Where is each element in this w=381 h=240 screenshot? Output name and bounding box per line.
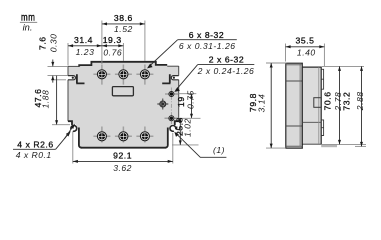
screw T3: [140, 70, 149, 79]
svg-text:0.30: 0.30: [48, 34, 58, 53]
side view body: [300, 63, 324, 146]
screw B1: [97, 132, 106, 141]
svg-text:3.62: 3.62: [113, 163, 132, 173]
dim 38.6: [102, 21, 145, 65]
svg-text:19.3: 19.3: [103, 35, 122, 45]
white slot cutouts: [66, 76, 181, 133]
svg-text:35.5: 35.5: [296, 36, 315, 46]
top-right slot: [171, 76, 178, 80]
screw T1: [97, 70, 106, 79]
svg-text:2 x 0.24-1.26: 2 x 0.24-1.26: [197, 66, 255, 76]
right protruding strips: [321, 69, 323, 89]
dim 7.6 vertical: [48, 66, 69, 79]
control screw 2: [169, 116, 174, 121]
front outline left edge: [67, 66, 69, 121]
bottom-left corner ledge and slot: [68, 121, 72, 125]
svg-text:70.6: 70.6: [323, 91, 333, 110]
svg-text:38.6: 38.6: [114, 13, 133, 23]
screw centerlines top row: [93, 65, 110, 85]
screw B3: [140, 132, 149, 141]
front outline top edge: [68, 65, 79, 67]
screw B2: [119, 132, 128, 141]
svg-text:1.23: 1.23: [76, 47, 95, 57]
svg-text:6 x 8-32: 6 x 8-32: [189, 30, 224, 40]
svg-text:4 x R0.1: 4 x R0.1: [16, 150, 52, 160]
top-left slot: [68, 76, 75, 80]
svg-text:1.88: 1.88: [40, 90, 50, 109]
svg-text:1.40: 1.40: [297, 48, 316, 58]
label rectangle: [112, 87, 133, 96]
dim 35.5 top of side view: [286, 44, 325, 67]
front outline right edge: [178, 66, 180, 121]
svg-text:mm: mm: [21, 12, 35, 23]
recess square: [314, 98, 321, 108]
screw T2: [119, 70, 128, 79]
svg-text:4 x R2.6: 4 x R2.6: [17, 139, 53, 149]
svg-text:3.14: 3.14: [257, 94, 267, 113]
svg-text:1.02: 1.02: [182, 118, 192, 137]
svg-text:0.75: 0.75: [185, 90, 195, 109]
side baseline: [321, 145, 337, 147]
svg-text:7.6: 7.6: [38, 36, 48, 50]
svg-text:31.4: 31.4: [74, 35, 93, 45]
dim 31.4 / 19.3: [68, 43, 123, 66]
indicator circle: [157, 99, 168, 110]
svg-text:1.52: 1.52: [114, 24, 133, 34]
dim 19 / 0.75 right: [179, 93, 197, 95]
screw centerlines bottom row: [93, 127, 110, 143]
svg-text:6 x 0.31-1.26: 6 x 0.31-1.26: [179, 41, 236, 51]
svg-text:2 x 6-32: 2 x 6-32: [209, 55, 244, 65]
svg-text:73.2: 73.2: [342, 92, 352, 111]
front view body fill: [68, 62, 179, 148]
dim 79.8 / 3.14 left of side view: [266, 63, 287, 148]
dims 70.6 / 73.2 right of side view: [322, 65, 364, 67]
dim 47.6 vertical: [56, 76, 58, 125]
bottom edge: [81, 147, 166, 149]
bottom-right corner ledge and slot: [175, 121, 179, 125]
svg-text:0.76: 0.76: [103, 47, 122, 57]
dim 25.8 / 1.02 right: [172, 118, 201, 145]
svg-text:in.: in.: [23, 23, 33, 33]
svg-text:2.88: 2.88: [355, 91, 365, 111]
control screws centerline: [170, 88, 172, 126]
svg-text:92.1: 92.1: [113, 150, 132, 160]
dim 92.1 bottom: [73, 132, 173, 164]
control screw 1: [169, 92, 174, 97]
svg-text:(1): (1): [213, 145, 225, 155]
side view left column (baseplate): [286, 63, 303, 148]
